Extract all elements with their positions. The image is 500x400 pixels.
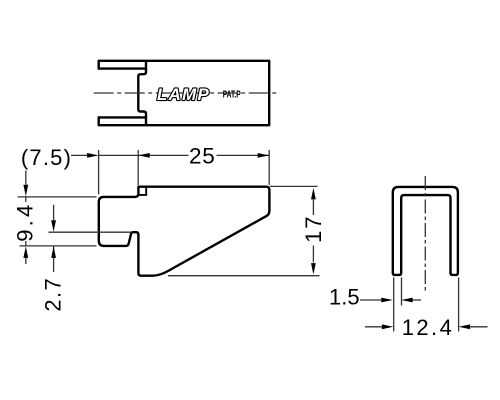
svg-text:(7.5): (7.5): [21, 145, 72, 170]
left leg bottom cap: [393, 273, 401, 275]
dim 2.7: [53, 205, 55, 272]
top prong inner edge: [99, 67, 146, 69]
extension line x=98.6: [98, 150, 100, 194]
extension line x=269.2: [268, 150, 270, 185]
PAT.P text: [223, 88, 241, 100]
centerline of top view: [94, 92, 279, 94]
side view outline: [393, 187, 458, 275]
svg-text:9.4: 9.4: [13, 202, 38, 242]
svg-text:17: 17: [301, 215, 326, 243]
svg-text:25: 25: [189, 143, 216, 168]
side view extension lines: [394, 277, 459, 331]
sheet edge square in front view: [139, 187, 146, 195]
dim 1.5: [360, 299, 381, 301]
right leg bottom cap: [451, 273, 458, 275]
svg-text:PAT.P: PAT.P: [223, 88, 241, 100]
dim 12.4: [365, 326, 382, 328]
LAMP logo: [157, 85, 210, 104]
extension line x=138.2: [137, 150, 139, 185]
dim line 25 right segment: [217, 154, 270, 156]
dim 9.4: [25, 171, 27, 265]
arrow right at 98.6: [87, 153, 99, 158]
svg-text:2.7: 2.7: [40, 277, 65, 312]
side view centerline: [424, 176, 426, 292]
dim 17 extension lines: [168, 186, 320, 275]
svg-text:LAMP: LAMP: [157, 85, 210, 104]
top view outline: [99, 61, 270, 125]
dim line 7.5 span: [99, 154, 139, 156]
left extension lines: [18, 197, 132, 246]
svg-text:1.5: 1.5: [329, 284, 360, 309]
arrow right at 269.2: [258, 153, 270, 158]
web edge with relief notch: [138, 62, 146, 125]
front view outline: [99, 187, 270, 276]
dim (7.5) leader line: [71, 150, 269, 194]
arrow left at 138.2: [138, 153, 150, 158]
bottom prong inner edge: [99, 116, 146, 118]
dim line 25 left segment: [138, 154, 188, 156]
svg-text:12.4: 12.4: [402, 315, 454, 340]
